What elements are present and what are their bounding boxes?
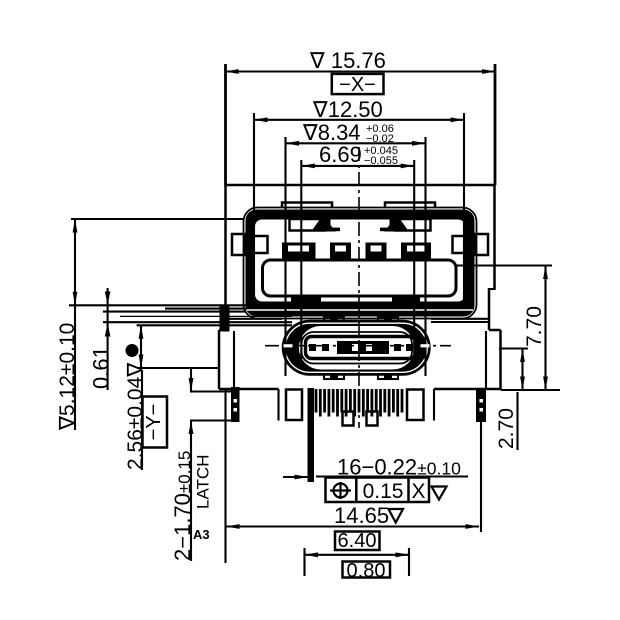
svg-text:A3: A3 — [193, 527, 210, 542]
svg-text:2.70: 2.70 — [495, 408, 518, 449]
svg-text:14.65: 14.65 — [334, 503, 389, 528]
svg-text:−0.055: −0.055 — [364, 155, 398, 167]
svg-text:6.69: 6.69 — [319, 142, 362, 167]
svg-text:∇ 15.76: ∇ 15.76 — [309, 48, 386, 73]
svg-text:7.70: 7.70 — [523, 306, 546, 347]
svg-text:∇5.12±0.10: ∇5.12±0.10 — [56, 323, 79, 431]
svg-text:∇12.50: ∇12.50 — [312, 97, 383, 122]
svg-text:LATCH: LATCH — [194, 455, 213, 509]
svg-text:0.80: 0.80 — [347, 560, 386, 582]
svg-text:16−0.22±0.10: 16−0.22±0.10 — [337, 455, 461, 480]
svg-text:X: X — [411, 480, 425, 503]
svg-text:−Y−: −Y− — [143, 404, 165, 441]
svg-text:−0.02: −0.02 — [366, 133, 394, 145]
svg-text:0.15: 0.15 — [363, 480, 404, 503]
svg-text:6.40: 6.40 — [338, 530, 377, 552]
svg-text:−X−: −X− — [339, 74, 376, 96]
svg-text:0.61: 0.61 — [89, 346, 114, 389]
svg-text:2−1.70±0.15: 2−1.70±0.15 — [170, 451, 195, 561]
